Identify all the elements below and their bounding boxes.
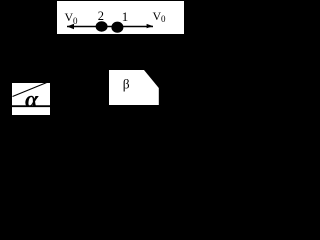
svg-text:0: 0 <box>73 16 78 26</box>
svg-text:β: β <box>123 76 130 91</box>
svg-text:α: α <box>25 87 39 113</box>
svg-text:0: 0 <box>161 14 166 24</box>
svg-text:2: 2 <box>98 9 104 23</box>
svg-text:1: 1 <box>122 9 129 24</box>
